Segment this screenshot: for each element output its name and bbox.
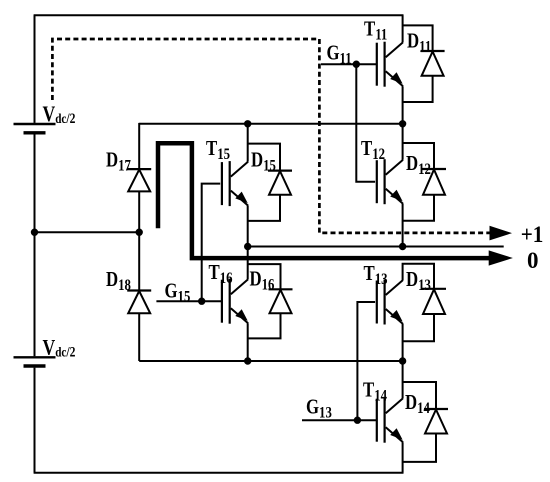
battery V2 Vdc/2 lower source	[14, 357, 56, 366]
label Vdc/2 upper	[42, 102, 75, 126]
svg-text:G15: G15	[164, 280, 190, 306]
label Vdc/2 lower	[42, 336, 75, 360]
svg-text:D13: D13	[406, 268, 431, 294]
wire: T16 emitter to lower branch	[247, 323, 249, 361]
svg-text:G13: G13	[306, 396, 332, 422]
label T13	[364, 262, 388, 288]
svg-text:T13: T13	[364, 262, 388, 288]
wire: G11 gate lead	[321, 63, 377, 65]
transistor T11 IGBT	[377, 42, 403, 87]
label D16	[250, 268, 275, 294]
wire: T11 collector from top rail	[402, 15, 404, 42]
label D15	[251, 149, 276, 175]
node: neutral at left rail	[32, 230, 37, 235]
wire: thick 0 current path	[158, 143, 490, 258]
label D12	[406, 152, 431, 178]
diode D13 antiparallel	[422, 289, 446, 314]
transistor T16 IGBT	[222, 279, 248, 324]
wire: G13 vertical to T13 gate	[357, 302, 375, 420]
node: lower branch at middle leg	[245, 358, 250, 363]
svg-text:D14: D14	[405, 391, 430, 417]
transistor T13 IGBT	[377, 280, 403, 325]
label T16	[208, 261, 232, 287]
wire: T12 emitter to output node	[402, 204, 404, 247]
wire: G15 gate lead	[156, 300, 221, 302]
node: neutral at clamp column	[137, 230, 142, 235]
diode D12 antiparallel	[422, 169, 446, 195]
diode D15 antiparallel	[268, 171, 292, 195]
diode D11 antiparallel	[421, 51, 445, 76]
label D18	[106, 268, 131, 294]
label T12	[361, 137, 385, 163]
arrow: 0 output arrowhead	[489, 250, 513, 265]
node: G13 junction	[355, 418, 360, 423]
node: G11 junction	[354, 61, 359, 66]
svg-text:G11: G11	[326, 42, 351, 68]
wire: G15 vertical to T15 gate	[202, 184, 221, 302]
label T15	[206, 137, 230, 163]
svg-text:T12: T12	[361, 137, 385, 163]
wire: middle leg top to T15 collector	[247, 124, 249, 162]
svg-text:+1: +1	[521, 221, 544, 247]
wire: middle leg output node to T16 collector	[247, 247, 249, 280]
svg-text:D18: D18	[106, 268, 131, 294]
label D14	[405, 391, 430, 417]
wire: D12 branch top	[403, 143, 434, 169]
label G11	[326, 42, 351, 68]
wire: clamp column above D17	[138, 123, 140, 169]
wire: D15 branch top	[248, 144, 280, 171]
wire: upper branch rail (clamp top to T11/T12 midpoint)	[139, 123, 402, 125]
wire: D11 branch top	[403, 25, 433, 51]
wire: left DC rail lower segment	[34, 368, 36, 473]
label D13	[406, 268, 431, 294]
wire: dashed +1 current path	[52, 39, 492, 233]
svg-text:Vdc/2: Vdc/2	[42, 102, 75, 126]
wire: T13 cell top corner	[403, 264, 434, 289]
transistor T15 IGBT	[222, 161, 248, 206]
wire: D12 branch bottom	[403, 195, 434, 221]
wire: T15 emitter to output node	[247, 206, 249, 247]
label T14	[363, 379, 387, 405]
svg-text:D15: D15	[251, 149, 276, 175]
svg-text:Vdc/2: Vdc/2	[42, 336, 75, 360]
label T11	[364, 18, 387, 44]
label D17	[106, 149, 131, 175]
svg-text:T16: T16	[208, 261, 232, 287]
arrow: +1 output arrowhead	[490, 226, 513, 241]
svg-text:T14: T14	[363, 379, 387, 405]
battery V1 Vdc/2 upper source	[14, 124, 56, 133]
label G15	[164, 280, 190, 306]
svg-text:D17: D17	[106, 149, 131, 175]
wire: top rail	[34, 14, 404, 16]
label G13	[306, 396, 332, 422]
node: output at right leg	[400, 244, 405, 249]
wire: bottom rail	[34, 472, 404, 474]
diode D18 clamp	[127, 291, 151, 314]
svg-text:T15: T15	[206, 137, 230, 163]
wire: left DC rail upper segment	[34, 15, 36, 123]
label D11	[407, 30, 431, 56]
wire: D14 branch bottom	[403, 434, 436, 462]
node: lower branch at right leg	[400, 358, 405, 363]
node: G15 junction	[199, 299, 204, 304]
wire: T14 emitter to bottom rail	[402, 442, 404, 473]
wire: T13 emitter through midpoint to T14 collector	[402, 324, 404, 398]
wire: neutral rail to clamp diodes	[35, 231, 140, 233]
wire: D16 branch bottom	[248, 313, 281, 338]
wire: lower branch rail (clamp bottom to T13/T14 midpoint)	[139, 360, 402, 362]
svg-text:T11: T11	[364, 18, 387, 44]
label 0 output state	[527, 248, 539, 273]
wire: D15 branch bottom	[248, 195, 280, 221]
wire: D13 branch bottom	[403, 314, 434, 341]
transistor T12 IGBT	[377, 159, 403, 204]
diode D14 antiparallel	[424, 409, 448, 434]
node: output at middle leg	[245, 244, 250, 249]
wire: D14 branch top	[403, 382, 436, 409]
svg-text:D12: D12	[406, 152, 431, 178]
wire: right leg T11 emitter to T12 collector	[402, 86, 404, 160]
wire: D16 branch top	[248, 264, 281, 289]
diode D16 antiparallel	[269, 289, 293, 313]
svg-text:0: 0	[527, 248, 539, 273]
diode D17 clamp	[127, 169, 151, 191]
svg-text:D16: D16	[250, 268, 275, 294]
node: upper branch at middle leg	[245, 121, 250, 126]
wire: clamp column D17 to neutral	[138, 191, 140, 232]
transistor T14 IGBT	[377, 398, 403, 443]
wire: D11 branch bottom	[403, 76, 433, 102]
node: upper branch at right leg	[400, 121, 405, 126]
svg-text:D11: D11	[407, 30, 431, 56]
wire: clamp column below D18	[138, 313, 140, 361]
wire: G13 gate lead	[302, 419, 377, 421]
wire: left DC rail middle segment	[34, 134, 36, 356]
wire: clamp column neutral to D18	[138, 232, 140, 290]
label +1 output state	[521, 221, 544, 247]
wire: output line to 0 terminal	[248, 246, 504, 248]
wire: G11 vertical to T12 gate	[356, 64, 375, 182]
